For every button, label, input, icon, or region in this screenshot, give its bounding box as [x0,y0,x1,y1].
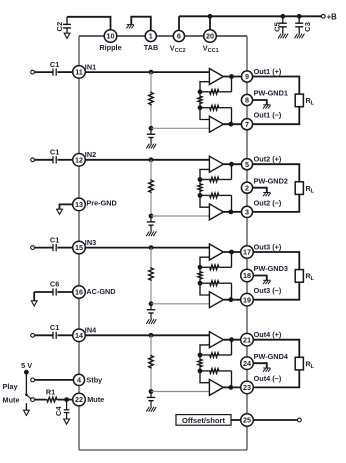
ground internal (channel 4) [146,407,149,412]
pin 2 PW-GND2 [241,182,252,193]
chassis ground at TAB [127,24,134,26]
node out+ (channel 1) [229,74,234,79]
chassis ground at PW-GND3 [263,279,270,281]
node AC reference (channel 4) [149,389,154,394]
wire feedback lower to out- node [231,371,233,388]
resistor feedback upper (channel 4) [200,354,209,356]
wire Out1 (+) to load [253,77,299,95]
wire bias resistor to AC-gnd cap node [150,193,152,216]
wire inv amp output [223,123,241,125]
pin 9 Out1+ [241,71,252,82]
svg-text:Mute: Mute [3,396,20,405]
op-amp non-inverting (channel 1) [209,69,223,85]
node feedback upper (channel 2) [198,177,203,182]
svg-text:15: 15 [75,243,83,252]
wire inv amp output [223,386,241,388]
capacitor internal AC-gnd (channel 2) [150,216,152,222]
svg-text:PW-GND1: PW-GND1 [254,89,288,98]
wire upper dot to divider [199,92,201,95]
node input junction (channel 1) [149,70,154,75]
svg-text:C1: C1 [50,148,59,157]
wire feedback lower to out- node [231,195,233,212]
resistor feedback divider (channel 2) [198,183,202,192]
ground internal (channel 3) [146,319,149,324]
op-amp inverting (channel 1) [209,116,223,132]
junction at C3 [297,14,302,19]
svg-text:Out1 (−): Out1 (−) [254,111,282,120]
svg-text:5: 5 [245,160,249,169]
wire input to bias resistor [150,248,152,267]
input coupling capacitor C1 (channel 2) [31,158,35,162]
pin 21 Out4+ [241,333,254,346]
wire pin 25 to diagnostic terminal [253,419,297,421]
svg-text:22: 22 [75,395,83,404]
svg-text:14: 14 [75,331,83,340]
resistor feedback divider (channel 1) [198,95,202,104]
pin 10 Ripple [104,30,117,43]
wire feedback to non-inv amp minus input [200,345,209,355]
op-amp inverting (channel 3) [209,292,223,308]
resistor input bias (channel 1) [149,92,154,106]
svg-text:IN3: IN3 [85,238,96,247]
pin 15 IN3 [73,241,86,254]
svg-text:C3: C3 [303,22,312,32]
svg-text:Offset/short: Offset/short [182,416,226,425]
resistor feedback lower (channel 1) [200,107,209,109]
svg-text:24: 24 [243,359,251,368]
wire inv amp output [223,211,241,213]
IC package outline top edge [79,35,247,37]
wire IN2 input line [85,159,209,161]
op-amp inverting (channel 4) [209,379,223,395]
wire PW-GND3 to ground [253,276,267,281]
pin 8 PW-GND1 [241,94,252,105]
wire feedback upper to out+ node [231,164,233,179]
wire AC reference to inverting amp [151,391,209,393]
wire +B rail down to pin 20 [209,16,211,30]
resistor input bias (channel 4) [149,355,154,369]
svg-text:Out3 (−): Out3 (−) [254,286,282,295]
wire Out4 (+) to load [253,340,299,358]
svg-text:2: 2 [245,183,249,192]
svg-text:IN4: IN4 [85,326,97,335]
pin 23 Out4- [241,381,254,394]
resistor RL load (channel 1) [295,94,303,107]
svg-text:R1: R1 [46,388,55,397]
+B supply rail [179,15,321,17]
node feedback lower (channel 1) [198,105,203,110]
wire feedback to non-inv amp minus input [200,169,209,179]
wire lower dot to inverting amp plus input [200,371,209,383]
switch pole tick [25,394,28,397]
resistor input bias (channel 2) [149,179,154,193]
svg-text:12: 12 [75,155,83,164]
node feedback lower (channel 4) [198,369,203,374]
chassis ground at PW-GND1 [263,104,270,106]
node out+ (channel 2) [229,162,234,167]
svg-text:C2: C2 [55,22,64,32]
capacitor internal AC-gnd (channel 1) [150,128,152,134]
svg-text:Ripple: Ripple [99,43,121,52]
wire input to bias resistor [150,335,152,354]
svg-text:CC2: CC2 [175,48,186,54]
IC package outline right edge [246,36,248,450]
svg-text:4: 4 [77,376,81,385]
svg-text:17: 17 [243,248,251,257]
svg-text:Pre-GND: Pre-GND [86,199,116,208]
wire C6 to ground [33,292,35,301]
diagnostic output terminal [298,418,302,422]
wire inv amp output [223,299,241,301]
svg-text:3: 3 [245,208,249,217]
chassis ground at PW-GND4 [263,367,270,369]
wire 5V to switch pole [25,372,27,394]
capacitor C6 [34,291,53,293]
svg-text:1: 1 [149,32,153,41]
resistor feedback upper (channel 1) [200,91,209,93]
svg-text:6: 6 [177,32,181,41]
node input junction (channel 2) [149,157,154,162]
svg-text:C6: C6 [50,280,59,289]
svg-text:+B: +B [327,12,338,21]
pin 1 TAB [145,30,156,41]
resistor feedback upper (channel 3) [200,266,209,268]
wire +B rail down to pin 6 [178,16,180,30]
svg-text:Out2 (−): Out2 (−) [254,198,282,207]
svg-text:PW-GND4: PW-GND4 [254,352,289,361]
wire upper dot to divider [199,355,201,358]
pin 5 Out2+ [241,159,252,170]
svg-text:8: 8 [245,96,249,105]
switch lever [27,395,31,399]
wire input to bias resistor [150,72,152,91]
node inv amp output (channel 4) [229,385,234,390]
svg-text:IN1: IN1 [85,62,96,71]
node AC reference (channel 2) [149,214,154,219]
wire load to Out3 (-) [253,282,299,300]
wire lower dot to inverting amp plus input [200,283,209,295]
switch contact Play [31,378,35,382]
node feedback upper (channel 1) [198,89,203,94]
junction above pin 20 [208,14,213,19]
wire Pre-GND to ground [60,204,74,209]
node input junction (channel 4) [149,333,154,338]
svg-text:L: L [311,364,315,370]
svg-text:L: L [311,101,315,107]
ground arrow at C6 [31,301,37,306]
node feedback lower (channel 3) [198,281,203,286]
junction at C5 [280,14,285,19]
svg-text:Out4 (−): Out4 (−) [254,374,282,383]
wire load to Out1 (-) [253,107,299,125]
node inv amp output (channel 2) [229,210,234,215]
svg-text:25: 25 [243,416,251,425]
switch contact Mute [31,398,35,402]
wire Out2 (+) to load [253,164,299,182]
wire feedback upper to out+ node [231,77,233,92]
wire R1 to Mute pin 22 [58,399,73,401]
svg-text:TAB: TAB [144,43,158,52]
svg-text:C4: C4 [54,406,63,416]
wire IN4 input line [85,334,209,336]
node out+ (channel 4) [229,337,234,342]
pin 17 Out3+ [241,246,254,259]
pin 13 Pre-GND [73,198,86,211]
svg-text:11: 11 [75,68,83,77]
wire bias resistor to AC-gnd cap node [150,281,152,304]
pin 22 Mute [73,393,86,406]
svg-text:16: 16 [75,288,83,297]
wire TAB pin 1 to chassis ground [131,17,151,31]
ground under C5 [278,34,281,39]
resistor feedback lower (channel 3) [200,282,209,284]
capacitor C2 [63,23,71,25]
node feedback upper (channel 4) [198,353,203,358]
op-amp non-inverting (channel 3) [209,244,223,260]
+B terminal [321,14,325,18]
node feedback upper (channel 3) [198,265,203,270]
wire divider to lower dot [199,192,201,195]
wire PW-GND2 to ground [253,188,267,193]
capacitor C4 [66,400,68,410]
node inv amp output (channel 1) [229,122,234,127]
ground arrow below switch [24,410,30,415]
svg-text:L: L [311,276,315,282]
wire non-inv amp output [223,251,241,253]
input coupling capacitor C1 (channel 4) [31,333,35,337]
svg-text:Out3 (+): Out3 (+) [254,242,282,251]
svg-text:AC-GND: AC-GND [86,287,115,296]
node out+ (channel 3) [229,250,234,255]
wire non-inv amp output [223,339,241,341]
op-amp inverting (channel 2) [209,204,223,220]
svg-text:21: 21 [243,335,251,344]
svg-text:Out4 (+): Out4 (+) [254,330,282,339]
resistor feedback upper (channel 2) [200,179,209,181]
wire divider to lower dot [199,280,201,283]
wire divider to lower dot [199,105,201,108]
pin 7 Out1- [241,119,252,130]
wire feedback lower to out- node [231,283,233,300]
wire IN1 input line [85,71,209,73]
wire feedback to non-inv amp minus input [200,82,209,92]
svg-text:13: 13 [75,200,83,209]
pin 3 Out2- [241,206,252,217]
svg-text:Out2 (+): Out2 (+) [254,155,282,164]
ground arrow below C4 [64,419,70,424]
wire bias resistor to AC-gnd cap node [150,369,152,392]
svg-text:C1: C1 [50,235,59,244]
ground arrow at Pre-GND [57,209,63,214]
pin 24 PW-GND4 [241,357,254,370]
svg-text:Mute: Mute [87,395,104,404]
resistor RL load (channel 2) [295,182,303,195]
5 V terminal node [24,370,29,375]
Offset/short function box [176,415,231,426]
wire upper dot to divider [199,267,201,270]
wire C2 to pin 10 top [67,17,111,31]
pin 4 Stby [73,374,84,385]
input coupling capacitor C1 (channel 3) [31,246,35,250]
svg-text:10: 10 [107,32,115,41]
ground arrow below C2 [64,33,70,38]
ground internal (channel 1) [146,144,149,149]
svg-text:5 V: 5 V [21,361,32,370]
wire non-inv amp output [223,76,241,78]
pin 25 Offset/short [241,414,254,427]
pin 11 IN1 [73,66,86,79]
capacitor internal AC-gnd (channel 3) [150,304,152,310]
svg-text:CC1: CC1 [208,48,219,54]
svg-text:Play: Play [3,382,19,391]
wire input to bias resistor [150,160,152,179]
ground under C3 [295,34,298,39]
svg-text:Out1 (+): Out1 (+) [254,67,282,76]
wire feedback upper to out+ node [231,340,233,355]
wire lower dot to inverting amp plus input [200,195,209,207]
resistor feedback lower (channel 2) [200,194,209,196]
svg-text:L: L [311,188,315,194]
pin 12 IN2 [73,154,86,167]
pin 14 IN4 [73,329,86,342]
svg-text:20: 20 [206,32,214,41]
node inv amp output (channel 3) [229,297,234,302]
input coupling capacitor C1 (channel 1) [31,70,35,74]
op-amp non-inverting (channel 4) [209,332,223,348]
node AC reference (channel 1) [149,126,154,131]
resistor RL load (channel 4) [295,357,303,370]
wire AC reference to inverting amp [151,303,209,305]
wire load to Out2 (-) [253,194,299,212]
capacitor C3 [298,16,300,23]
pin 16 AC-GND [73,286,86,299]
svg-text:PW-GND2: PW-GND2 [254,176,288,185]
wire bias resistor to AC-gnd cap node [150,106,152,129]
node input junction (channel 3) [149,245,154,250]
wire Mute contact to R1 [35,399,46,401]
wire divider to lower dot [199,368,201,371]
resistor feedback divider (channel 4) [198,358,202,367]
capacitor internal AC-gnd (channel 4) [150,392,152,398]
svg-text:9: 9 [245,72,249,81]
IC package outline left edge [78,36,80,450]
pin 20 VCC1 [204,30,217,43]
pin 18 PW-GND3 [241,269,254,282]
wire PW-GND1 to ground [253,100,267,105]
resistor RL load (channel 3) [295,270,303,283]
wire feedback upper to out+ node [231,252,233,267]
ground internal (channel 2) [146,231,149,236]
wire PW-GND4 to ground [253,363,267,368]
wire AC reference to inverting amp [151,127,209,129]
resistor feedback divider (channel 3) [198,271,202,280]
svg-text:19: 19 [243,295,251,304]
wire lower dot to inverting amp plus input [200,108,209,120]
chassis ground at PW-GND2 [263,192,270,194]
wire IN3 input line [85,247,209,249]
wire AC reference to inverting amp [151,215,209,217]
svg-text:7: 7 [245,120,249,129]
svg-text:PW-GND3: PW-GND3 [254,264,288,273]
wire feedback to non-inv amp minus input [200,257,209,267]
svg-text:18: 18 [243,271,251,280]
svg-text:23: 23 [243,383,251,392]
node feedback lower (channel 2) [198,193,203,198]
IC package outline bottom edge [79,449,247,451]
capacitor C5 [282,16,284,23]
svg-text:C5: C5 [272,21,281,31]
node AC reference (channel 3) [149,301,154,306]
resistor feedback lower (channel 4) [200,370,209,372]
node R1 C4 junction [64,397,69,402]
wire Play contact to Stby pin 4 [35,379,74,381]
wire upper dot to divider [199,180,201,183]
svg-text:C1: C1 [50,60,59,69]
resistor R1 [46,397,58,402]
wire load to Out4 (-) [253,370,299,388]
svg-text:Stby: Stby [86,375,103,384]
svg-text:IN2: IN2 [85,150,96,159]
wire feedback lower to out- node [231,108,233,125]
pin 19 Out3- [241,293,254,306]
wire non-inv amp output [223,163,241,165]
pin 6 VCC2 [173,30,184,41]
op-amp non-inverting (channel 2) [209,156,223,172]
svg-text:C1: C1 [50,323,59,332]
wire Offset/short box to pin 25 [231,419,241,421]
resistor input bias (channel 3) [149,267,154,281]
wire Out3 (+) to load [253,252,299,270]
ground stub below switch [25,403,27,410]
